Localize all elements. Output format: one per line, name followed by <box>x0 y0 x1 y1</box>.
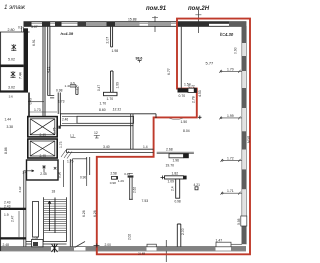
wall x86.7 lower single <box>86 175 88 186</box>
room1 cross symbol <box>11 44 16 51</box>
svg-text:h=4.30: h=4.30 <box>220 32 234 37</box>
svg-text:МЗЛ: МЗЛ <box>247 136 251 143</box>
svg-text:2.46: 2.46 <box>62 117 68 121</box>
bottom wall bottom line <box>0 250 246 252</box>
wall end notch <box>58 126 60 129</box>
long wall top line <box>61 113 157 115</box>
bottom door step right 1.47 <box>216 242 231 247</box>
grid line x=166 bottom <box>165 240 167 262</box>
left block left edge <box>0 32 2 93</box>
svg-text:0.90: 0.90 <box>80 176 86 180</box>
left strip left edge bottom <box>0 208 2 251</box>
svg-text:h=4.39: h=4.39 <box>61 31 74 36</box>
stair bottom wall double <box>26 242 67 244</box>
svg-text:8.86: 8.86 <box>4 147 8 154</box>
wall x86.7-89.7 <box>87 157 90 175</box>
thin wall right of red x181.3 <box>180 27 182 89</box>
svg-text:2.58: 2.58 <box>111 172 117 176</box>
svg-text:1.09: 1.09 <box>115 82 119 89</box>
top wall pier 2c <box>78 22 87 27</box>
left block mid wall <box>0 65 24 68</box>
wall box at y88-92.5 <box>178 88 189 92</box>
bottom exit cross mark <box>52 244 58 253</box>
left block top line <box>0 31 30 33</box>
svg-text:0.98: 0.98 <box>237 218 241 225</box>
svg-text:пом.2Н: пом.2Н <box>188 6 210 12</box>
svg-text:1.73: 1.73 <box>58 100 65 104</box>
svg-text:2.00: 2.00 <box>181 228 185 235</box>
bottom door leaf diagonal left <box>75 242 86 248</box>
top wall hatched pier right <box>229 22 246 27</box>
right wall window box 0.98 <box>241 216 247 226</box>
tick line 1.99 <box>219 116 241 119</box>
stair left tall rect <box>33 201 39 237</box>
top wall gray seg 2 <box>115 22 140 26</box>
svg-text:8.04: 8.04 <box>183 129 190 133</box>
svg-text:13.31: 13.31 <box>113 107 122 111</box>
link line y158.8 <box>72 158 86 160</box>
svg-text:2.02: 2.02 <box>128 234 132 240</box>
svg-text:1.72: 1.72 <box>227 156 234 160</box>
tick line 1.72 <box>221 159 242 162</box>
T-wall base <box>104 92 118 95</box>
left strip wall x24-26 <box>24 171 26 247</box>
svg-text:2.62: 2.62 <box>133 187 137 193</box>
shaft lobby line <box>28 101 44 103</box>
svg-text:1.29: 1.29 <box>118 179 124 183</box>
left strip thick wall 2 <box>0 237 26 239</box>
svg-text:6.77: 6.77 <box>167 68 171 75</box>
left block lower wall <box>0 90 28 92</box>
right wall inner line <box>241 26 243 244</box>
svg-text:1.2: 1.2 <box>70 134 75 138</box>
svg-text:0.70: 0.70 <box>179 94 186 98</box>
svg-text:1.82: 1.82 <box>172 172 179 176</box>
small T-wall bar x112-118 <box>112 176 118 179</box>
svg-text:4.21: 4.21 <box>46 66 50 73</box>
bottom wall band seg 3 <box>86 247 147 251</box>
svg-text:4.53: 4.53 <box>198 90 202 97</box>
svg-text:0.98: 0.98 <box>175 200 181 204</box>
svg-text:2.49: 2.49 <box>40 154 47 158</box>
grid line x=152 top <box>154 16 156 32</box>
svg-text:0.5: 0.5 <box>71 81 76 85</box>
svg-text:5.02: 5.02 <box>8 58 15 62</box>
svg-text:1.4: 1.4 <box>22 171 26 175</box>
svg-text:2.47: 2.47 <box>11 215 15 222</box>
wall 3.40 hatch left end <box>61 150 72 159</box>
left block thick vertical wall <box>24 28 28 92</box>
svg-text:5.77: 5.77 <box>206 61 215 66</box>
right wall pier 6 <box>242 226 247 244</box>
svg-text:15.88: 15.88 <box>128 18 137 22</box>
svg-text:1.09: 1.09 <box>168 180 175 184</box>
svg-text:0.96: 0.96 <box>58 172 62 178</box>
svg-text:1.9: 1.9 <box>4 213 9 217</box>
left strip thick wall 1 <box>0 208 26 210</box>
tick at red boundary bottom-left <box>94 244 100 248</box>
svg-text:2.49: 2.49 <box>40 133 47 137</box>
machine room <box>27 160 59 180</box>
svg-text:0.45: 0.45 <box>124 172 130 176</box>
long wall bottom line <box>61 125 134 127</box>
svg-text:пом.91: пом.91 <box>146 6 167 12</box>
svg-text:3.02: 3.02 <box>8 86 15 90</box>
svg-text:2.62: 2.62 <box>18 186 22 192</box>
right wall pier 3 <box>242 88 247 108</box>
svg-text:3.07: 3.07 <box>31 25 38 29</box>
tick line 1.70 <box>219 70 241 73</box>
top wall pier 1b <box>42 22 50 27</box>
svg-text:0.98: 0.98 <box>56 89 63 93</box>
bottom-right inner wall corner lines <box>231 243 242 245</box>
corridor wall C (x58-60.5) <box>58 93 60 115</box>
long wall left cap <box>60 114 62 126</box>
svg-text:1.70: 1.70 <box>227 67 234 71</box>
L-wall near x66-75 <box>70 85 78 95</box>
long wall left box divider <box>62 116 77 123</box>
svg-text:0.5: 0.5 <box>18 26 23 30</box>
svg-text:7.53: 7.53 <box>142 199 149 203</box>
svg-text:7.44: 7.44 <box>19 72 23 79</box>
corridor wall B (x47.5-50) <box>48 27 50 96</box>
machine room arrow <box>42 166 45 173</box>
corridor wall A (x43-45) <box>43 27 45 117</box>
ticks near top-left corner <box>22 27 24 32</box>
svg-text:4.21: 4.21 <box>194 183 201 187</box>
corridor column walls x130.7-133 <box>131 114 133 150</box>
svg-text:1.44: 1.44 <box>5 118 12 122</box>
svg-text:2.4: 2.4 <box>171 186 175 191</box>
svg-text:1.99: 1.99 <box>227 114 234 118</box>
door arc under jog <box>169 118 183 119</box>
stair treads <box>44 200 66 233</box>
svg-text:3.38: 3.38 <box>7 125 14 129</box>
shaft top dim line <box>29 111 57 113</box>
svg-text:6.91: 6.91 <box>32 39 36 46</box>
thin wall x63.5 <box>63 160 65 187</box>
svg-text:0.72: 0.72 <box>189 84 195 88</box>
corridor wall B cap <box>48 95 55 98</box>
bottom door step mid <box>147 244 156 247</box>
svg-text:2.80: 2.80 <box>8 28 15 32</box>
svg-text:1.70: 1.70 <box>107 97 114 101</box>
svg-text:1.47: 1.47 <box>216 238 223 242</box>
svg-text:6.26: 6.26 <box>82 210 86 217</box>
svg-text:1.50: 1.50 <box>181 120 188 124</box>
stair mid divider <box>54 198 56 234</box>
right wall pier corner <box>242 22 247 43</box>
wall stub x110-113 vertical <box>111 27 113 47</box>
svg-text:2.78: 2.78 <box>192 96 196 103</box>
svg-text:1.73: 1.73 <box>59 141 63 148</box>
top wall gray window seg <box>86 22 107 26</box>
elevator shaft B <box>28 139 57 158</box>
bottom wall top line <box>0 246 246 248</box>
svg-text:0.90: 0.90 <box>234 47 238 54</box>
svg-text:21.88: 21.88 <box>138 251 145 255</box>
top wall window notch lintel <box>209 22 229 24</box>
corridor right top stub <box>155 114 157 118</box>
svg-text:2.00: 2.00 <box>105 243 112 247</box>
tick at red jog right <box>198 116 202 120</box>
left strip thin vertical <box>18 211 20 237</box>
svg-text:1 этаж: 1 этаж <box>4 4 26 11</box>
bottom wall band seg 2 <box>59 247 75 251</box>
svg-text:8.60: 8.60 <box>99 108 106 112</box>
svg-text:0.98: 0.98 <box>110 181 116 185</box>
top wall inner line <box>24 25 247 27</box>
T-wall x110 y71-96 <box>111 71 114 92</box>
svg-text:2.43: 2.43 <box>4 204 11 208</box>
svg-text:12: 12 <box>94 131 98 135</box>
long wall inner beam <box>77 116 134 123</box>
top wall pier 2 <box>55 22 62 27</box>
right wall pier 4 <box>242 131 247 149</box>
svg-text:1.4: 1.4 <box>143 145 148 149</box>
top wall pier 3 <box>107 22 116 27</box>
stair up arrow <box>48 201 51 231</box>
svg-text:2.48: 2.48 <box>3 243 10 247</box>
bottom wall band seg 4 <box>157 247 216 251</box>
svg-text:1.0: 1.0 <box>76 85 80 90</box>
tick line 1.71 <box>221 192 242 195</box>
corridor stem wall x130 y175-199 <box>128 175 134 177</box>
svg-text:3.6: 3.6 <box>9 95 14 99</box>
right wall pier 5 <box>242 169 247 189</box>
svg-text:2.07: 2.07 <box>106 37 110 44</box>
stair lower box 1.08 <box>32 240 44 247</box>
svg-text:0.47: 0.47 <box>97 85 101 91</box>
svg-text:6.26: 6.26 <box>93 210 97 217</box>
svg-text:18: 18 <box>52 190 56 194</box>
left tick of T-bar <box>161 176 165 180</box>
svg-text:1.96: 1.96 <box>173 159 180 163</box>
top wall window sill line <box>32 23 230 25</box>
svg-text:1.98: 1.98 <box>112 49 119 53</box>
right wall window center line <box>243 43 245 226</box>
svg-text:2.68: 2.68 <box>166 147 173 151</box>
T-bar horizontal <box>165 176 184 179</box>
svg-text:3.40: 3.40 <box>103 145 110 149</box>
top wall pier 1 <box>24 22 32 27</box>
svg-text:98.6: 98.6 <box>136 57 143 61</box>
grid line x=198 top <box>197 10 199 33</box>
stair flight boundary <box>43 197 66 241</box>
bottom wall band seg 5 <box>231 247 246 251</box>
door rect 1.96 <box>169 154 184 158</box>
svg-text:1.08: 1.08 <box>32 236 38 240</box>
top wall outer line <box>24 21 247 23</box>
svg-text:1.71: 1.71 <box>227 189 234 193</box>
svg-text:1.73: 1.73 <box>34 108 41 112</box>
T stem <box>176 179 180 198</box>
svg-text:2.45: 2.45 <box>40 172 47 176</box>
lobby wall left of shafts <box>28 93 30 117</box>
top wall pier 6 <box>177 22 209 27</box>
room2 cross symbol <box>10 71 15 78</box>
top wall gray seg 3 <box>148 22 171 26</box>
svg-text:1.75: 1.75 <box>52 127 56 134</box>
svg-text:1.70: 1.70 <box>100 101 107 105</box>
right wall pier 2 <box>242 56 247 71</box>
corridor wall x70-72.5 <box>70 159 72 247</box>
bottom wall band seg 1 <box>0 247 51 251</box>
right wall outer line <box>245 26 247 244</box>
svg-text:19.70: 19.70 <box>166 164 175 168</box>
elevator shaft A <box>28 117 57 137</box>
